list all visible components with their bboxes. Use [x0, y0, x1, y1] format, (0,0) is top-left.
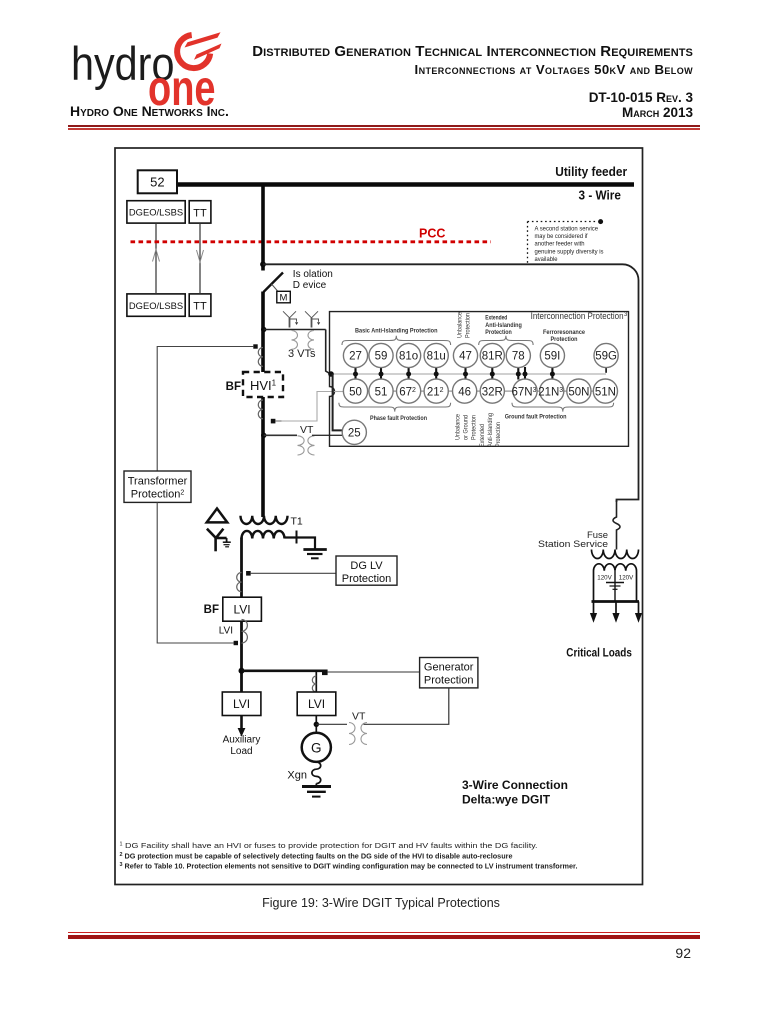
svg-text:3: 3: [624, 312, 628, 318]
svg-text:another feeder with: another feeder with: [535, 241, 585, 248]
svg-text:Delta:wye DGIT: Delta:wye DGIT: [462, 793, 551, 807]
svg-text:51: 51: [375, 386, 388, 398]
svg-text:1 DG Facility shall have an HV: 1 DG Facility shall have an HVI or fuses…: [120, 841, 538, 850]
svg-text:or Ground: or Ground: [463, 415, 470, 440]
svg-text:LVI: LVI: [308, 697, 325, 711]
svg-text:3 VTs: 3 VTs: [288, 348, 316, 360]
svg-text:TT: TT: [193, 301, 207, 313]
svg-text:3 - Wire: 3 - Wire: [579, 188, 621, 203]
svg-text:81R: 81R: [482, 351, 503, 363]
svg-text:Unbalance: Unbalance: [457, 312, 464, 338]
svg-text:27: 27: [349, 351, 362, 363]
svg-text:120V: 120V: [619, 575, 634, 582]
svg-text:Protection: Protection: [424, 675, 474, 687]
svg-text:G: G: [311, 741, 322, 756]
svg-text:Interconnection Protection: Interconnection Protection: [531, 311, 624, 321]
svg-text:available: available: [535, 256, 558, 263]
svg-text:59: 59: [375, 351, 388, 363]
svg-text:2 DG protection must be capabl: 2 DG protection must be capable of selec…: [120, 852, 514, 861]
svg-text:Utility feeder: Utility feeder: [555, 164, 627, 179]
svg-text:Protection: Protection: [342, 573, 392, 585]
svg-text:Protection: Protection: [551, 336, 578, 343]
svg-text:DGEO/LSBS: DGEO/LSBS: [129, 300, 183, 311]
svg-text:DG LV: DG LV: [350, 560, 383, 572]
svg-text:D evice: D evice: [293, 280, 327, 291]
svg-text:Extended: Extended: [479, 424, 486, 447]
svg-text:Basic Anti-Islanding Protectio: Basic Anti-Islanding Protection: [355, 328, 438, 335]
svg-text:25: 25: [348, 428, 361, 440]
svg-text:T1: T1: [291, 516, 303, 528]
svg-text:Station Service: Station Service: [538, 539, 608, 549]
svg-text:Xgn: Xgn: [287, 770, 307, 782]
svg-text:genuine supply diversity is: genuine supply diversity is: [535, 248, 604, 255]
svg-text:47: 47: [459, 351, 472, 363]
svg-text:LVI: LVI: [233, 603, 250, 617]
svg-text:Anti-Islanding: Anti-Islanding: [487, 413, 494, 447]
svg-text:M: M: [280, 293, 288, 304]
svg-text:Protection: Protection: [471, 415, 478, 440]
svg-text:DGEO/LSBS: DGEO/LSBS: [129, 207, 183, 218]
svg-text:LVI: LVI: [233, 697, 250, 711]
svg-text:59G: 59G: [595, 351, 617, 363]
svg-text:Protection2: Protection2: [131, 489, 185, 501]
svg-text:TT: TT: [193, 208, 207, 220]
svg-text:50N: 50N: [568, 386, 589, 398]
svg-text:may be considered if: may be considered if: [535, 233, 588, 240]
svg-text:Phase fault Protection: Phase fault Protection: [370, 415, 427, 422]
svg-text:32R: 32R: [482, 386, 503, 398]
svg-text:52: 52: [150, 175, 164, 190]
svg-text:51N: 51N: [595, 386, 616, 398]
svg-text:BF: BF: [204, 604, 219, 616]
svg-text:VT: VT: [300, 424, 314, 436]
svg-text:Generator: Generator: [424, 662, 474, 674]
svg-text:Critical Loads: Critical Loads: [566, 648, 632, 660]
svg-text:Is olation: Is olation: [293, 269, 333, 280]
svg-text:Protection: Protection: [485, 329, 512, 336]
svg-text:3 Refer to Table 10. Protectio: 3 Refer to Table 10. Protection elements…: [120, 862, 578, 871]
svg-text:Auxiliary: Auxiliary: [223, 735, 261, 746]
svg-text:Protection: Protection: [465, 313, 472, 338]
svg-text:81o: 81o: [399, 351, 418, 363]
svg-text:Load: Load: [230, 746, 252, 757]
svg-text:Transformer: Transformer: [128, 476, 188, 488]
svg-text:78: 78: [512, 351, 525, 363]
svg-text:A second station service: A second station service: [535, 225, 599, 232]
svg-text:Ferroresonance: Ferroresonance: [543, 329, 585, 336]
svg-text:Protection: Protection: [495, 422, 502, 447]
svg-text:46: 46: [458, 386, 471, 398]
svg-text:VT: VT: [352, 711, 366, 723]
svg-text:Ground fault Protection: Ground fault Protection: [505, 414, 567, 421]
svg-text:3-Wire Connection: 3-Wire Connection: [462, 778, 568, 792]
svg-text:LVI: LVI: [219, 626, 233, 637]
svg-text:BF: BF: [226, 381, 241, 393]
svg-text:120V: 120V: [597, 575, 612, 582]
svg-text:50: 50: [349, 386, 362, 398]
svg-text:Anti-Islanding: Anti-Islanding: [485, 322, 522, 329]
svg-text:Extended: Extended: [485, 315, 507, 322]
svg-text:59I: 59I: [544, 351, 560, 363]
svg-text:Unbalance: Unbalance: [455, 414, 462, 440]
svg-text:81u: 81u: [427, 351, 446, 363]
svg-text:PCC: PCC: [419, 227, 445, 241]
